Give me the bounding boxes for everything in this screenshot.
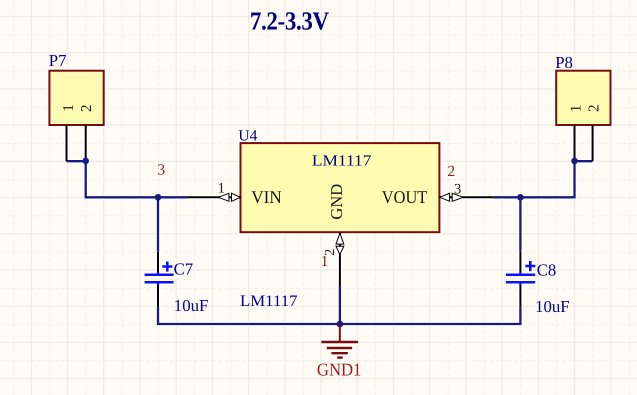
svg-text:GND: GND xyxy=(327,184,346,220)
svg-text:LM1117: LM1117 xyxy=(240,293,298,310)
svg-text:2: 2 xyxy=(79,105,95,113)
svg-text:1: 1 xyxy=(568,105,584,113)
svg-text:1: 1 xyxy=(61,104,77,112)
junction P7 xyxy=(82,158,89,165)
connector P7 xyxy=(49,51,104,161)
svg-text:2: 2 xyxy=(586,105,602,113)
svg-text:LM1117: LM1117 xyxy=(312,152,372,169)
junction node VOUT/C8 xyxy=(517,194,524,201)
svg-text:2: 2 xyxy=(447,163,455,180)
junction ground xyxy=(337,321,344,328)
wire C8 branch xyxy=(519,196,521,252)
pin 1 VIN xyxy=(187,180,241,201)
pin 3 VOUT xyxy=(439,163,493,201)
svg-text:U4: U4 xyxy=(238,127,257,144)
svg-text:1: 1 xyxy=(218,180,225,196)
junction P8 xyxy=(571,158,578,165)
wire P8 junction to VOUT node xyxy=(494,158,593,198)
wire C7 branch xyxy=(157,196,159,252)
svg-text:P8: P8 xyxy=(555,53,573,72)
svg-text:10uF: 10uF xyxy=(174,296,209,315)
svg-text:VIN: VIN xyxy=(251,187,281,207)
regulator U4 LM1117 xyxy=(238,127,439,232)
wire ground bus xyxy=(158,307,520,325)
pin 2 GND of U4 xyxy=(321,233,344,286)
wire P7 junction to VIN node xyxy=(67,158,188,198)
wire U4 GND pin lower xyxy=(339,286,341,324)
svg-text:VOUT: VOUT xyxy=(382,187,428,207)
svg-text:7.2-3.3V: 7.2-3.3V xyxy=(250,7,330,35)
ground GND1 xyxy=(317,324,362,379)
capacitor C7 xyxy=(145,252,209,315)
svg-text:C8: C8 xyxy=(537,260,557,279)
svg-text:3: 3 xyxy=(157,162,165,179)
junction node VIN/C7 xyxy=(155,194,162,201)
connector P8 xyxy=(555,53,610,161)
svg-text:10uF: 10uF xyxy=(535,297,570,316)
white halo underlays for all strokes xyxy=(49,71,610,358)
svg-text:GND1: GND1 xyxy=(317,359,362,379)
capacitor C8 xyxy=(506,252,570,316)
svg-text:P7: P7 xyxy=(49,51,67,70)
svg-text:1: 1 xyxy=(321,253,329,270)
svg-text:C7: C7 xyxy=(174,259,194,278)
